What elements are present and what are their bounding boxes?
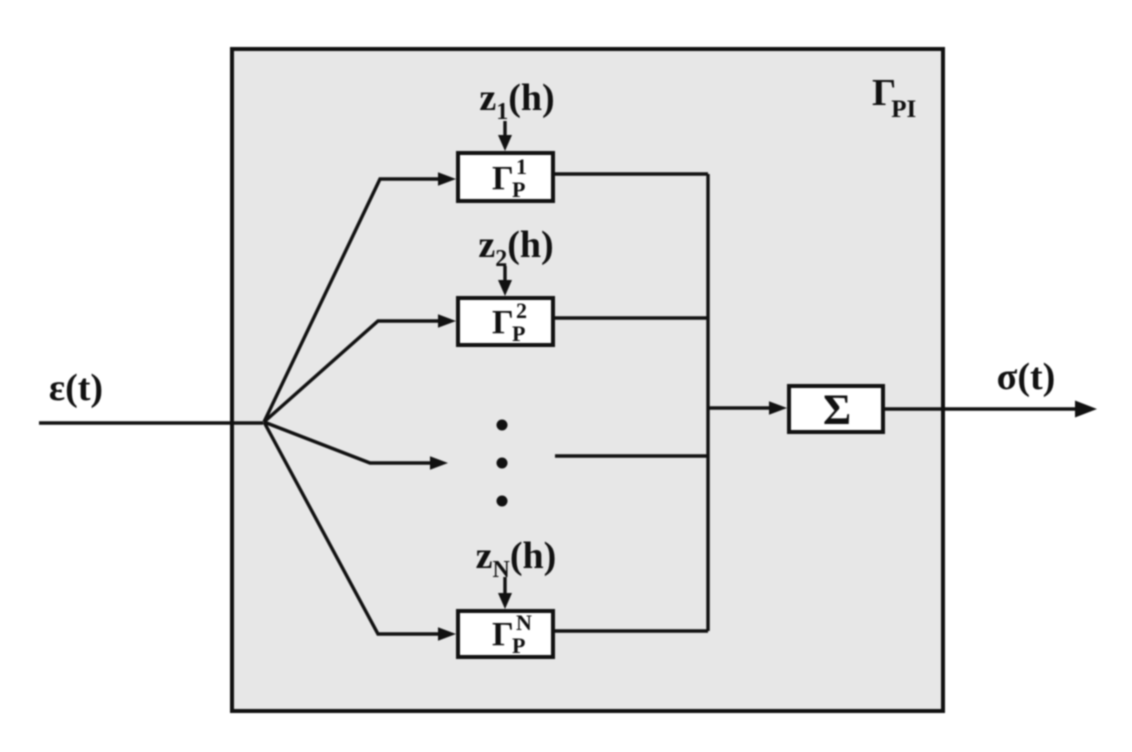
svg-text:Γ: Γ (492, 160, 514, 197)
svg-text:zN(h): zN(h) (476, 535, 557, 583)
svg-text:ε(t): ε(t) (49, 367, 103, 409)
arrowhead z2 (498, 280, 512, 296)
input wire epsilon (39, 421, 263, 424)
fan wire to row 1 (264, 179, 440, 422)
ellipsis dot 2 (497, 458, 508, 469)
svg-text:P: P (512, 177, 525, 202)
svg-text:2: 2 (516, 298, 527, 323)
block GammaP2 (458, 298, 553, 345)
wire z2 down arrow (503, 266, 506, 283)
wire zN down arrow (503, 577, 506, 595)
arrowhead row 2 input (438, 314, 456, 328)
arrowhead middle row (430, 456, 448, 470)
arrowhead row N input (438, 627, 456, 641)
svg-text:N: N (516, 610, 532, 635)
wire z1 down arrow (503, 121, 506, 138)
arrowhead sigma output (1075, 401, 1097, 418)
svg-text:z2(h): z2(h) (478, 224, 553, 272)
block GammaPN (458, 611, 553, 657)
svg-text:Σ: Σ (823, 387, 851, 434)
block GammaP1 (458, 153, 553, 201)
wire sigma output (885, 407, 1078, 410)
svg-text:Γ: Γ (492, 616, 514, 653)
fan wire to row 2 (264, 321, 440, 422)
wire row N output (555, 629, 708, 632)
svg-text:1: 1 (516, 154, 527, 179)
wire row 2 output (555, 316, 708, 319)
svg-text:z1(h): z1(h) (479, 77, 554, 125)
ellipsis dot 1 (497, 420, 508, 431)
ellipsis dot 3 (497, 496, 508, 507)
svg-text:Γ: Γ (492, 304, 514, 341)
svg-text:P: P (512, 321, 525, 346)
arrowhead zN (498, 593, 512, 609)
svg-text:P: P (512, 633, 525, 658)
wire collector vertical (706, 174, 709, 631)
wire middle row output (555, 454, 708, 457)
wire row 1 output (555, 172, 708, 175)
arrowhead row 1 input (438, 172, 456, 186)
fan wire to middle row (264, 422, 432, 463)
svg-text:σ(t): σ(t) (997, 356, 1056, 398)
arrowhead z1 (498, 135, 512, 151)
wire sum input (708, 406, 771, 409)
outer system box GPI (232, 49, 943, 711)
block Sigma (789, 386, 883, 432)
fan wire to row N (264, 422, 440, 634)
arrowhead sum input (769, 401, 787, 415)
